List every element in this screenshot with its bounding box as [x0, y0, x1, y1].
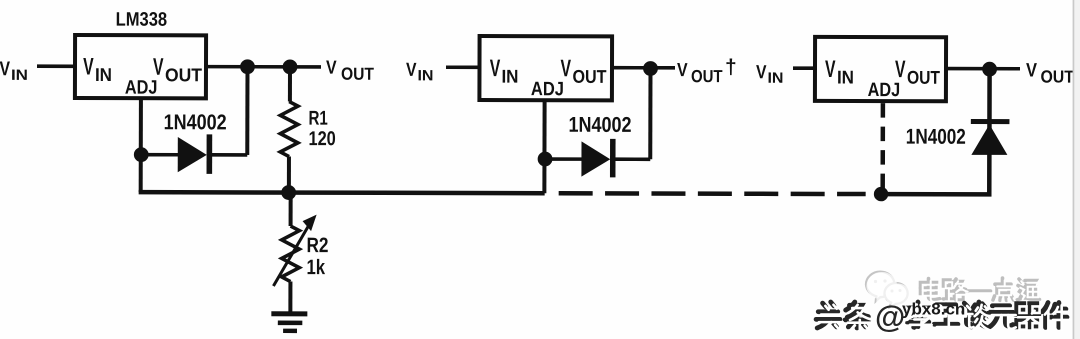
svg-text:R2: R2: [307, 234, 329, 257]
svg-text:@: @: [875, 299, 905, 334]
svg-text:†: †: [725, 56, 737, 79]
svg-text:OUT: OUT: [691, 66, 723, 86]
svg-text:OUT: OUT: [1040, 67, 1074, 87]
svg-text:IN: IN: [417, 67, 433, 84]
svg-text:R1: R1: [309, 108, 328, 130]
svg-text:IN: IN: [501, 66, 518, 87]
svg-text:OUT: OUT: [572, 66, 607, 87]
svg-text:V: V: [490, 55, 501, 82]
svg-text:V: V: [406, 60, 417, 81]
svg-text:V: V: [326, 58, 337, 79]
svg-text:V: V: [756, 62, 767, 83]
svg-text:V: V: [677, 60, 688, 81]
svg-text:ADJ: ADJ: [868, 79, 901, 101]
svg-text:OUT: OUT: [341, 64, 374, 84]
svg-text:IN: IN: [95, 64, 112, 85]
svg-text:V: V: [1026, 59, 1037, 81]
svg-text:1N4002: 1N4002: [569, 113, 632, 137]
svg-text:1N4002: 1N4002: [906, 125, 966, 149]
svg-text:1N4002: 1N4002: [164, 110, 227, 134]
svg-text:V: V: [0, 58, 11, 80]
svg-text:IN: IN: [767, 70, 783, 87]
svg-text:ybx8.cn: ybx8.cn: [902, 300, 965, 319]
svg-text:ADJ: ADJ: [125, 77, 158, 99]
svg-text:LM338: LM338: [116, 9, 168, 31]
svg-text:OUT: OUT: [907, 67, 941, 88]
svg-text:OUT: OUT: [165, 64, 203, 85]
svg-text:120: 120: [308, 128, 335, 150]
svg-text:IN: IN: [837, 66, 854, 87]
svg-text:V: V: [825, 56, 836, 83]
svg-text:IN: IN: [11, 67, 28, 84]
svg-text:V: V: [83, 54, 94, 81]
svg-text:ADJ: ADJ: [531, 78, 564, 100]
svg-text:1k: 1k: [306, 256, 325, 279]
